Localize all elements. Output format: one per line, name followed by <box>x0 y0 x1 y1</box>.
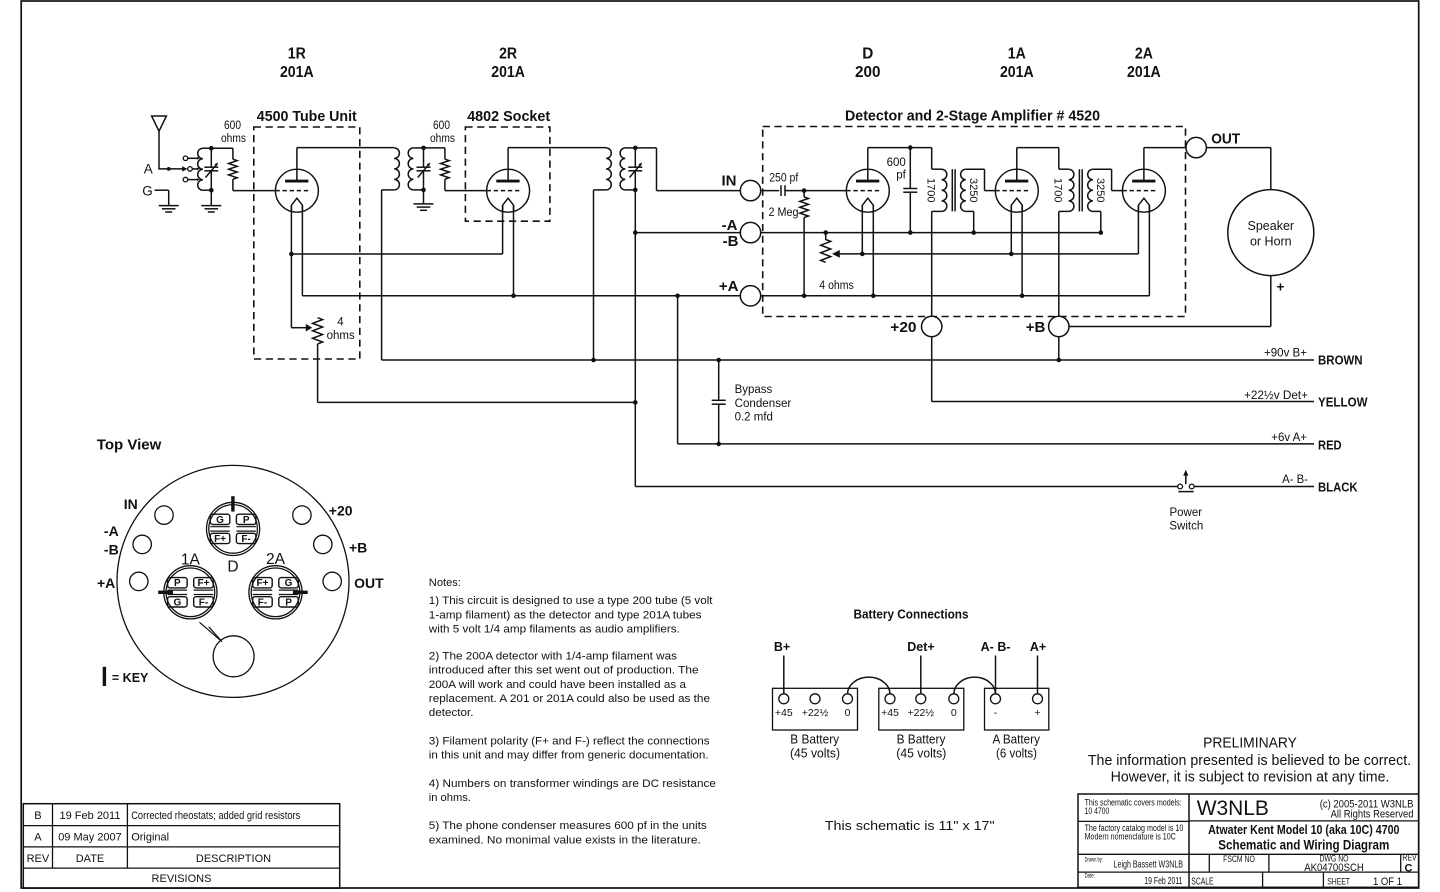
svg-text:SCALE: SCALE <box>1191 877 1213 888</box>
svg-text:+22½: +22½ <box>802 707 829 719</box>
svg-text:+22½: +22½ <box>908 707 935 719</box>
svg-text:YELLOW: YELLOW <box>1318 395 1368 409</box>
svg-text:+A: +A <box>97 575 115 591</box>
svg-text:4500 Tube Unit: 4500 Tube Unit <box>257 108 357 125</box>
svg-text:+45: +45 <box>881 707 899 719</box>
svg-text:1 OF 1: 1 OF 1 <box>1373 876 1402 888</box>
svg-text:examined. No monimal value ex: examined. No monimal value exists in the… <box>429 834 701 846</box>
svg-text:-: - <box>994 707 998 719</box>
svg-text:0: 0 <box>951 707 957 719</box>
svg-text:P: P <box>174 578 181 589</box>
svg-text:Bypass: Bypass <box>735 384 773 396</box>
svg-text:600: 600 <box>433 120 450 132</box>
svg-text:4) Numbers on transformer wind: 4) Numbers on transformer windings are D… <box>429 778 716 790</box>
svg-text:Det+: Det+ <box>907 640 934 654</box>
svg-text:0.2 mfd: 0.2 mfd <box>735 412 773 424</box>
svg-text:1R: 1R <box>288 46 306 63</box>
svg-text:D: D <box>862 46 873 63</box>
svg-text:A Battery: A Battery <box>992 732 1040 746</box>
svg-text:DESCRIPTION: DESCRIPTION <box>196 853 271 865</box>
svg-text:ohms: ohms <box>327 330 355 342</box>
svg-text:F-: F- <box>241 534 250 545</box>
svg-text:2R: 2R <box>499 46 517 63</box>
svg-text:B Battery: B Battery <box>897 732 947 746</box>
svg-text:Notes:: Notes: <box>429 577 461 589</box>
svg-text:F-: F- <box>199 597 208 608</box>
svg-text:Top View: Top View <box>97 436 162 453</box>
svg-text:+20: +20 <box>890 319 916 336</box>
svg-text:F+: F+ <box>214 534 226 545</box>
svg-text:AK04700SCH: AK04700SCH <box>1304 862 1364 874</box>
svg-text:The information presented is b: The information presented is believed to… <box>1088 753 1411 769</box>
svg-text:2A: 2A <box>266 551 286 568</box>
svg-text:-B: -B <box>104 541 119 557</box>
svg-text:+B: +B <box>349 540 367 556</box>
svg-text:2) The 200A detector with 1/4-: 2) The 200A detector with 1/4-amp filame… <box>429 650 678 662</box>
svg-text:600: 600 <box>224 120 241 132</box>
svg-text:200: 200 <box>855 64 881 81</box>
svg-text:replacement. A 201 or 201A cou: replacement. A 201 or 201A could also be… <box>429 693 710 705</box>
svg-text:Switch: Switch <box>1169 521 1203 533</box>
svg-text:G: G <box>142 183 153 198</box>
svg-text:F+: F+ <box>256 578 268 589</box>
svg-text:BROWN: BROWN <box>1318 354 1363 368</box>
svg-text:A- B-: A- B- <box>981 640 1011 654</box>
svg-text:3250: 3250 <box>967 178 979 202</box>
svg-text:C: C <box>1405 862 1413 874</box>
svg-text:A- B-: A- B- <box>1282 474 1308 486</box>
svg-text:W3NLB: W3NLB <box>1197 796 1269 820</box>
svg-text:Date:: Date: <box>1085 872 1095 879</box>
svg-text:1A: 1A <box>1008 46 1026 63</box>
svg-text:(45 volts): (45 volts) <box>790 747 840 761</box>
svg-text:D: D <box>227 559 238 576</box>
svg-text:with 5 volt 1/4 amp filaments: with 5 volt 1/4 amp filaments as audio a… <box>428 624 680 636</box>
svg-text:A+: A+ <box>1030 640 1046 654</box>
svg-text:3) Filament polarity (F+ and F: 3) Filament polarity (F+ and F-) reflect… <box>429 735 710 747</box>
svg-text:FSCM NO: FSCM NO <box>1223 854 1255 864</box>
svg-text:OUT: OUT <box>1211 131 1240 148</box>
svg-text:1) This circuit is designed to: 1) This circuit is designed to use a typ… <box>429 595 714 607</box>
svg-text:+22½v Det+: +22½v Det+ <box>1244 390 1308 402</box>
svg-text:2 Meg: 2 Meg <box>769 207 799 219</box>
svg-text:Modern nomenclature is 10C: Modern nomenclature is 10C <box>1085 831 1177 841</box>
svg-text:-A: -A <box>104 523 119 539</box>
svg-text:B Battery: B Battery <box>790 732 840 746</box>
svg-text:+B: +B <box>1026 319 1046 336</box>
svg-text:Leigh Bassett W3NLB: Leigh Bassett W3NLB <box>1114 859 1184 870</box>
svg-text:IN: IN <box>722 173 737 190</box>
svg-text:(6 volts): (6 volts) <box>996 747 1037 761</box>
svg-text:REV: REV <box>1402 853 1416 863</box>
svg-text:in ohms.: in ohms. <box>429 792 471 804</box>
svg-text:2A: 2A <box>1135 46 1153 63</box>
svg-text:REVISIONS: REVISIONS <box>152 873 212 885</box>
svg-text:4 ohms: 4 ohms <box>819 280 854 292</box>
svg-text:ohms: ohms <box>221 133 246 145</box>
svg-text:+45: +45 <box>775 707 793 719</box>
svg-text:Speaker: Speaker <box>1248 219 1295 233</box>
svg-text:B+: B+ <box>774 640 790 654</box>
svg-text:A: A <box>34 832 42 844</box>
svg-text:1A: 1A <box>181 552 201 569</box>
svg-text:Corrected rheostats; added gri: Corrected rheostats; added grid resistor… <box>131 810 301 822</box>
svg-text:0: 0 <box>845 707 851 719</box>
svg-text:IN: IN <box>124 496 138 512</box>
svg-text:pf: pf <box>896 169 906 181</box>
svg-text:REV: REV <box>27 853 50 865</box>
svg-text:Atwater Kent Model 10 (aka 10C: Atwater Kent Model 10 (aka 10C) 4700 <box>1208 822 1399 837</box>
svg-text:BLACK: BLACK <box>1318 480 1358 494</box>
svg-text:+90v B+: +90v B+ <box>1264 348 1307 360</box>
svg-text:1700: 1700 <box>1051 178 1063 202</box>
svg-text:200A will work and could have: 200A will work and could have been insta… <box>429 679 687 691</box>
svg-text:201A: 201A <box>280 64 314 81</box>
svg-text:P: P <box>243 515 250 526</box>
svg-text:-A: -A <box>722 217 738 234</box>
svg-text:1700: 1700 <box>924 178 936 202</box>
svg-text:or Horn: or Horn <box>1250 234 1292 248</box>
svg-text:201A: 201A <box>1000 64 1034 81</box>
svg-text:10 4700: 10 4700 <box>1085 806 1110 816</box>
svg-text:B: B <box>34 810 41 822</box>
svg-text:All Rights Reserved: All Rights Reserved <box>1331 809 1414 821</box>
svg-text:= KEY: = KEY <box>112 671 149 685</box>
svg-text:5) The phone condenser measure: 5) The phone condenser measures 600 pf i… <box>429 820 707 832</box>
svg-text:Battery Connections: Battery Connections <box>854 607 969 621</box>
svg-text:However, it is subject to revi: However, it is subject to revision at an… <box>1111 770 1390 786</box>
svg-text:+A: +A <box>719 278 739 295</box>
svg-text:250 pf: 250 pf <box>769 173 799 185</box>
svg-text:+6v A+: +6v A+ <box>1271 432 1307 444</box>
svg-text:4802 Socket: 4802 Socket <box>467 108 550 125</box>
svg-text:-B: -B <box>723 233 739 250</box>
svg-text:OUT: OUT <box>354 575 384 591</box>
svg-text:introduced after this set went: introduced after this set went out of pr… <box>429 665 699 677</box>
svg-text:detector.: detector. <box>429 707 474 719</box>
svg-text:(45 volts): (45 volts) <box>896 747 946 761</box>
svg-text:Condenser: Condenser <box>735 398 792 410</box>
svg-text:600: 600 <box>887 157 906 169</box>
svg-text:G: G <box>216 515 224 526</box>
svg-text:This schematic is 11" x 17": This schematic is 11" x 17" <box>825 818 995 833</box>
svg-text:4: 4 <box>337 317 344 329</box>
svg-text:201A: 201A <box>491 64 525 81</box>
svg-text:09 May 2007: 09 May 2007 <box>58 832 122 844</box>
svg-text:3250: 3250 <box>1094 178 1106 202</box>
svg-text:Original: Original <box>131 832 169 844</box>
svg-text:PRELIMINARY: PRELIMINARY <box>1203 736 1297 752</box>
svg-text:P: P <box>285 597 292 608</box>
svg-text:19 Feb 2011: 19 Feb 2011 <box>60 810 121 822</box>
svg-text:ohms: ohms <box>430 133 455 145</box>
svg-text:RED: RED <box>1318 438 1342 452</box>
svg-text:in this unit and may differ fr: in this unit and may differ from generic… <box>429 750 709 762</box>
svg-text:G: G <box>285 578 293 589</box>
svg-text:Power: Power <box>1169 507 1202 519</box>
svg-text:Schematic and Wiring Diagram: Schematic and Wiring Diagram <box>1218 837 1389 853</box>
svg-text:201A: 201A <box>1127 64 1161 81</box>
svg-text:1-amp filament) as the detecto: 1-amp filament) as the detector and type… <box>429 609 702 621</box>
svg-text:DATE: DATE <box>76 853 105 865</box>
svg-text:SHEET: SHEET <box>1327 876 1350 886</box>
svg-text:F-: F- <box>258 597 267 608</box>
svg-text:Detector and 2-Stage Amplifier: Detector and 2-Stage Amplifier # 4520 <box>845 108 1100 125</box>
svg-text:Drawn by:: Drawn by: <box>1085 856 1103 863</box>
svg-text:+: + <box>1277 280 1285 295</box>
svg-text:A: A <box>144 161 153 176</box>
svg-text:G: G <box>173 597 181 608</box>
svg-text:F+: F+ <box>197 578 209 589</box>
svg-text:+: + <box>1034 707 1040 719</box>
svg-text:19 Feb 2011: 19 Feb 2011 <box>1144 876 1182 887</box>
svg-text:+20: +20 <box>329 502 353 518</box>
